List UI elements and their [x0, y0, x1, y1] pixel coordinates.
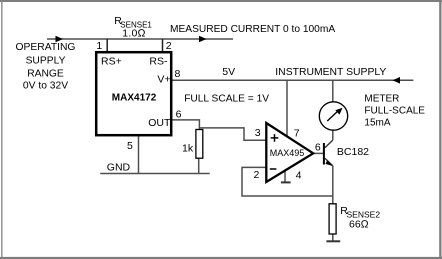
- svg-text:1: 1: [96, 40, 102, 52]
- svg-text:15mA: 15mA: [364, 118, 390, 129]
- svg-text:3: 3: [255, 127, 261, 139]
- svg-text:4: 4: [296, 169, 302, 181]
- svg-text:5: 5: [127, 140, 133, 152]
- svg-text:RANGE: RANGE: [27, 68, 64, 79]
- svg-text:7: 7: [294, 128, 300, 140]
- svg-text:GND: GND: [107, 161, 131, 173]
- svg-text:BC182: BC182: [337, 146, 369, 158]
- svg-text:METER: METER: [364, 94, 399, 105]
- svg-text:RS+: RS+: [101, 55, 122, 67]
- svg-text:1.0Ω: 1.0Ω: [122, 27, 145, 39]
- svg-text:INSTRUMENT SUPPLY: INSTRUMENT SUPPLY: [275, 67, 386, 78]
- svg-text:MEASURED CURRENT 0 to 100mA: MEASURED CURRENT 0 to 100mA: [170, 24, 335, 35]
- svg-text:OUT: OUT: [148, 117, 171, 129]
- svg-text:FULL-SCALE: FULL-SCALE: [364, 105, 425, 116]
- svg-text:6: 6: [176, 109, 182, 121]
- svg-text:0V to 32V: 0V to 32V: [23, 81, 68, 92]
- svg-text:RS-: RS-: [149, 55, 168, 67]
- svg-text:8: 8: [175, 68, 181, 80]
- svg-text:OPERATING: OPERATING: [16, 42, 76, 53]
- svg-text:1k: 1k: [182, 142, 194, 154]
- svg-text:MAX495: MAX495: [270, 148, 305, 158]
- svg-text:66Ω: 66Ω: [349, 219, 369, 231]
- svg-text:FULL SCALE = 1V: FULL SCALE = 1V: [184, 94, 269, 105]
- svg-text:MAX4172: MAX4172: [112, 93, 157, 104]
- svg-text:2: 2: [166, 40, 172, 52]
- svg-text:6: 6: [315, 141, 321, 153]
- svg-text:2: 2: [254, 169, 260, 181]
- svg-text:SUPPLY: SUPPLY: [26, 55, 66, 66]
- svg-text:V+: V+: [157, 73, 170, 85]
- svg-text:5V: 5V: [222, 66, 235, 78]
